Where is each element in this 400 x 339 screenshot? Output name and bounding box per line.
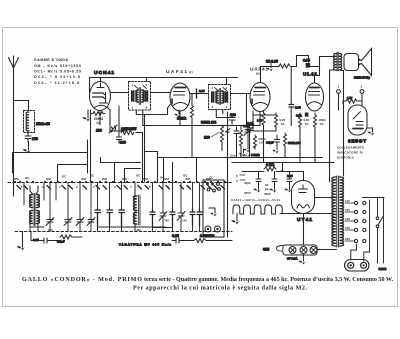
IFT1 pin labels xyxy=(132,83,148,110)
ground (UCH41 cathode) xyxy=(87,110,89,118)
transformer taps xyxy=(345,201,358,242)
resistor 1 W vertical xyxy=(262,112,265,126)
svg-text:50KΩ 1/4: 50KΩ 1/4 xyxy=(201,121,216,125)
primary winding xyxy=(332,177,336,246)
svg-text:UAF41—UAF41—UCH41—UL41: UAF41—UAF41—UCH41—UL41 xyxy=(231,198,281,202)
wire tube pins down xyxy=(100,106,119,136)
RF coil pair big xyxy=(134,190,141,229)
switch contacts row xyxy=(14,181,226,189)
oscillator shield box xyxy=(13,140,88,173)
ground bottom left xyxy=(22,240,24,247)
mains switch xyxy=(363,198,385,264)
wire to output transformer xyxy=(309,57,335,67)
wire staple xyxy=(291,56,309,67)
switch contact pin digits xyxy=(21,185,217,189)
capacitor 0.1 xyxy=(275,135,280,147)
wire UY41 top / bottom xyxy=(303,172,305,218)
bottom dashed line xyxy=(15,231,232,233)
resistor 0.5M vertical xyxy=(240,128,243,148)
svg-text:0.05: 0.05 xyxy=(287,174,293,178)
resistor 20K 1/4 xyxy=(91,112,105,116)
svg-text:0.05: 0.05 xyxy=(303,59,310,63)
svg-text:180: 180 xyxy=(120,141,126,145)
tube UCH41 xyxy=(90,82,111,111)
svg-text:6E5: 6E5 xyxy=(263,248,269,252)
antenna xyxy=(9,56,19,182)
svg-text:FONO: FONO xyxy=(206,234,215,238)
tube UAF41 (1) xyxy=(170,83,190,111)
svg-text:2 KΩ: 2 KΩ xyxy=(266,163,274,167)
svg-text:50KΩ 1/4: 50KΩ 1/4 xyxy=(288,141,301,145)
svg-text:μF: μF xyxy=(265,187,269,191)
resistor 0.25 1/4 xyxy=(275,113,278,128)
svg-text:105: 105 xyxy=(48,228,53,232)
wire IFT2 bottom xyxy=(216,110,232,158)
svg-text:Per apparecchi la cui matricol: Per apparecchi la cui matricola è seguit… xyxy=(133,286,307,292)
switch section drop wires xyxy=(24,183,200,232)
svg-text:125: 125 xyxy=(182,219,187,223)
label UAF41 (1) xyxy=(166,69,193,75)
svg-text:0.05: 0.05 xyxy=(199,89,205,93)
svg-text:OM: OM xyxy=(14,177,19,181)
svg-text:(2): (2) xyxy=(256,72,260,76)
svg-text:OM: OM xyxy=(122,177,127,181)
svg-text:220: 220 xyxy=(345,237,350,241)
capacitor 0.01 (UL41 grid) xyxy=(305,113,309,117)
capacitor 0.05 dark xyxy=(289,105,294,108)
svg-text:OM: OM xyxy=(164,177,169,181)
wire plate feed down xyxy=(290,67,292,105)
svg-text:UCH41: UCH41 xyxy=(94,70,114,76)
ground arrow (6E5GT) xyxy=(367,128,373,132)
svg-text:1/2: 1/2 xyxy=(320,122,324,126)
ground (antenna coil) xyxy=(28,142,30,150)
resistor 0.05 1/4 xyxy=(299,113,302,128)
svg-text:175: 175 xyxy=(32,137,38,141)
wire UL41 plate up xyxy=(315,67,320,84)
wire IFT1 bottom down xyxy=(136,111,143,126)
band table GAMME D'ONDA xyxy=(34,58,81,85)
resistor 2 W bottom xyxy=(194,239,206,243)
trimmer cap 4 xyxy=(87,214,95,227)
resistor 180 1/2 xyxy=(314,113,317,128)
svg-text:GALLO «CONDOR» - Mod. PRIMO: GALLO «CONDOR» - Mod. PRIMO xyxy=(22,277,142,283)
wire coil bottoms join xyxy=(118,226,165,228)
switch wiper arrows xyxy=(17,186,225,190)
oscillator coil transformer A xyxy=(30,186,40,227)
trimmer cap 3 xyxy=(76,214,84,227)
volume potentiometer xyxy=(221,125,231,151)
wire transformer leads down xyxy=(330,70,344,182)
svg-text:UY41: UY41 xyxy=(297,217,312,223)
tube 6E5GT xyxy=(348,105,367,135)
wire right of fono xyxy=(227,163,229,238)
capacitor 0.05 bottom xyxy=(172,238,183,243)
svg-text:OC1– Mc/s 5.95÷6.59: OC1– Mc/s 5.95÷6.59 xyxy=(34,70,81,74)
labels 745 125 xyxy=(164,219,187,223)
heater wavy line xyxy=(233,205,282,214)
svg-text:425: 425 xyxy=(136,228,141,232)
svg-text:INDICATORE DI: INDICATORE DI xyxy=(337,151,363,155)
wire UCH41 plate to IFT1 xyxy=(111,92,129,94)
svg-text:UL41: UL41 xyxy=(303,72,317,78)
secondary winding xyxy=(339,177,343,246)
capacitor 0.01 xyxy=(247,126,252,158)
label 20K 1/4 xyxy=(94,117,103,125)
svg-text:2 W: 2 W xyxy=(200,234,207,238)
electrolytic 30uF 350V xyxy=(256,172,261,190)
ground lamp xyxy=(303,254,305,262)
svg-text:1/4: 1/4 xyxy=(259,141,263,145)
small cap row 1 xyxy=(95,209,125,226)
wire UAF41(2)/UL41 cathode bus xyxy=(253,111,264,130)
IF transformer 2 xyxy=(209,85,231,110)
capacitor 0.05 (UY41) xyxy=(287,174,292,190)
grounds mid xyxy=(243,149,245,153)
ground heater xyxy=(236,213,238,221)
svg-text:RETE: RETE xyxy=(379,267,387,271)
svg-text:terza serie - Quattro gamme. M: terza serie - Quattro gamme. Media frequ… xyxy=(144,277,393,283)
labels 0.5u 0.5M xyxy=(230,154,249,158)
label UAF41 (2) xyxy=(250,67,268,76)
capacitor coupling xyxy=(196,89,198,98)
capacitor 0.5u xyxy=(234,127,239,158)
resistor 85 xyxy=(279,64,290,68)
svg-text:1/4: 1/4 xyxy=(305,122,309,126)
FONO box xyxy=(203,180,224,237)
resistor 10K/2W xyxy=(121,131,134,135)
mains plug xyxy=(345,260,370,272)
capacitor 180 xyxy=(117,137,122,143)
antenna coil 151/a-35 xyxy=(24,111,35,133)
wire UY41 plate to transformer xyxy=(315,197,337,199)
svg-text:OM: OM xyxy=(81,177,86,181)
dial lamp assembly xyxy=(277,245,318,255)
svg-text:745: 745 xyxy=(164,219,169,223)
wire UAF41 plate to IFT2 xyxy=(190,93,208,95)
svg-text:85-0.05: 85-0.05 xyxy=(266,60,278,64)
svg-text:OM: OM xyxy=(185,177,190,181)
arrow down near label xyxy=(270,63,272,68)
wire UAF41 cathode down-left xyxy=(136,104,170,182)
capacitor 0.05 xyxy=(306,63,311,68)
svg-text:OM: OM xyxy=(46,177,51,181)
pin stubs 6 3 xyxy=(236,174,238,183)
small cap row 2 xyxy=(150,209,202,226)
resistor 50K 1/4 xyxy=(284,133,287,147)
voltage selector sockets xyxy=(351,200,370,261)
tube UAF41 (2) xyxy=(250,83,270,112)
svg-text:OM: OM xyxy=(102,177,107,181)
text collegamento xyxy=(337,146,365,160)
svg-text:1 W: 1 W xyxy=(347,96,352,100)
wire IFT1 to UAF41 grid xyxy=(151,92,171,94)
svg-text:OM: OM xyxy=(143,177,148,181)
tube UL41 xyxy=(306,83,324,111)
svg-text:100: 100 xyxy=(204,136,210,140)
arrow down UAF41 screen xyxy=(178,110,180,114)
resistor 0.1uF xyxy=(60,235,72,239)
resistor 1 W xyxy=(346,99,357,103)
padder trimmer xyxy=(109,125,117,133)
speaker xyxy=(344,49,372,76)
bottom left capacitor 0.05 xyxy=(40,238,51,243)
svg-text:6E5GT: 6E5GT xyxy=(348,139,366,145)
svg-text:0.01: 0.01 xyxy=(247,122,254,126)
resistor 15K xyxy=(191,104,194,120)
oscillator coil transformer B xyxy=(30,186,40,227)
wire heater bus to transformer xyxy=(280,213,331,215)
svg-text:1/4: 1/4 xyxy=(281,122,285,126)
svg-text:110: 110 xyxy=(345,199,350,203)
terminal 3 xyxy=(360,90,364,94)
trimmer cap 2 xyxy=(64,214,72,227)
wiring mid buses xyxy=(90,110,92,182)
tube UY41 xyxy=(292,181,315,214)
OM OC labels over switch xyxy=(14,174,214,182)
svg-text:DIRE 25 Mg: DIRE 25 Mg xyxy=(354,76,370,80)
wire UAF41(2) plate to coupling xyxy=(261,67,280,83)
svg-text:COLLEGAMENTO: COLLEGAMENTO xyxy=(337,146,365,150)
trimmer 125 xyxy=(177,207,185,222)
svg-text:0.5μ: 0.5μ xyxy=(230,154,236,158)
top bus wire xyxy=(90,78,238,94)
svg-text:GAMME D'ONDA: GAMME D'ONDA xyxy=(34,58,68,62)
svg-text:OM – Kc/s 515÷1550: OM – Kc/s 515÷1550 xyxy=(34,64,81,68)
svg-text:15KΩ: 15KΩ xyxy=(177,117,186,121)
svg-text:UAF41: UAF41 xyxy=(166,69,187,75)
svg-text:140: 140 xyxy=(345,217,350,221)
svg-text:(1): (1) xyxy=(189,70,193,74)
svg-text:0.1μF: 0.1μF xyxy=(266,141,274,145)
capacitor 175 xyxy=(25,131,31,142)
tap labels xyxy=(345,199,350,241)
trimmer 745 xyxy=(159,207,167,222)
output transformer xyxy=(334,52,342,71)
svg-text:160: 160 xyxy=(345,226,350,230)
wire antenna to coil xyxy=(14,101,29,111)
svg-text:350V: 350V xyxy=(244,191,251,195)
svg-text:6V 0.3A: 6V 0.3A xyxy=(287,257,298,261)
svg-text:0.05: 0.05 xyxy=(172,234,179,238)
resistor 47K 1/4 xyxy=(254,135,257,149)
wires to 6E5GT xyxy=(339,93,363,110)
svg-text:10KΩ/2W: 10KΩ/2W xyxy=(121,127,137,131)
svg-text:30μF: 30μF xyxy=(244,181,251,185)
svg-text:100: 100 xyxy=(96,129,102,133)
electrolytic 50uF 350V xyxy=(272,172,277,190)
svg-text:200: 200 xyxy=(230,113,236,117)
power transformer xyxy=(332,176,344,247)
svg-text:125: 125 xyxy=(345,208,350,212)
svg-text:TARATURA MF 465 Kc/s: TARATURA MF 465 Kc/s xyxy=(119,243,171,247)
terminal 1 xyxy=(337,90,341,94)
svg-text:0.5MΩ: 0.5MΩ xyxy=(251,153,260,157)
svg-text:0.5MΩ: 0.5MΩ xyxy=(240,154,249,158)
IFT2 pin labels xyxy=(212,86,228,109)
svg-text:151/a-35: 151/a-35 xyxy=(36,122,50,126)
labels under bottom line xyxy=(48,228,141,232)
svg-text:SINTONIA: SINTONIA xyxy=(337,156,355,160)
svg-text:0.05: 0.05 xyxy=(295,106,301,110)
wires below xyxy=(253,107,315,162)
resistor 2K xyxy=(264,167,276,171)
band switch bus (dashed) xyxy=(8,182,232,184)
svg-text:350V: 350V xyxy=(264,192,271,196)
wire lamps to transformer xyxy=(317,249,337,251)
wire UY41 to lamps xyxy=(303,217,305,245)
wire IFT2 to UAF41(2) grid xyxy=(231,93,251,95)
IF transformer 1 xyxy=(129,82,151,111)
trimmer cap 1 xyxy=(46,214,54,227)
